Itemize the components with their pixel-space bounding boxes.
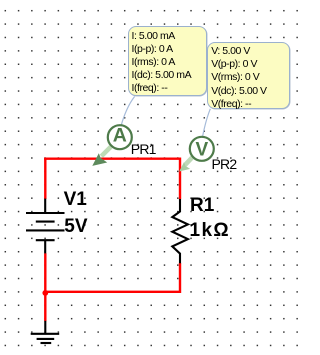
current probe PR1 (circle A) <box>108 125 132 150</box>
voltage source V1 (battery symbol) <box>26 199 65 254</box>
wire: left segment from top corner to V1 plus terminal <box>44 158 46 200</box>
probe PR1 arrow <box>92 147 111 166</box>
label R1 <box>190 199 214 213</box>
junction node dot <box>42 290 48 296</box>
wire: top net V1 to R1 <box>45 159 180 160</box>
resistor R1 (zigzag symbol) <box>172 199 188 263</box>
label V1 <box>64 193 87 207</box>
svg-text:V: V <box>195 140 208 161</box>
label PR2 <box>212 157 237 171</box>
voltage probe PR2 (circle V) <box>190 137 214 161</box>
wire: right segment from top corner to R1 top <box>179 158 181 200</box>
ground symbol <box>31 321 60 343</box>
wire: ground branch below junction <box>44 293 46 321</box>
tooltip connector to probe PR1 <box>121 97 134 125</box>
svg-text:A: A <box>113 125 127 147</box>
label PR1 <box>131 142 156 156</box>
probe PR2 tooltip <box>207 42 290 110</box>
probe PR2 arrow <box>179 157 192 172</box>
value 5V <box>64 220 87 234</box>
wire: bottom net junction to R1 bottom <box>45 263 180 292</box>
value 1kOhm <box>190 224 231 238</box>
tooltip connector to probe PR2 <box>203 109 211 137</box>
wire: left segment from V1 minus terminal to bottom junction <box>44 253 46 293</box>
probe PR1 tooltip <box>128 26 207 96</box>
